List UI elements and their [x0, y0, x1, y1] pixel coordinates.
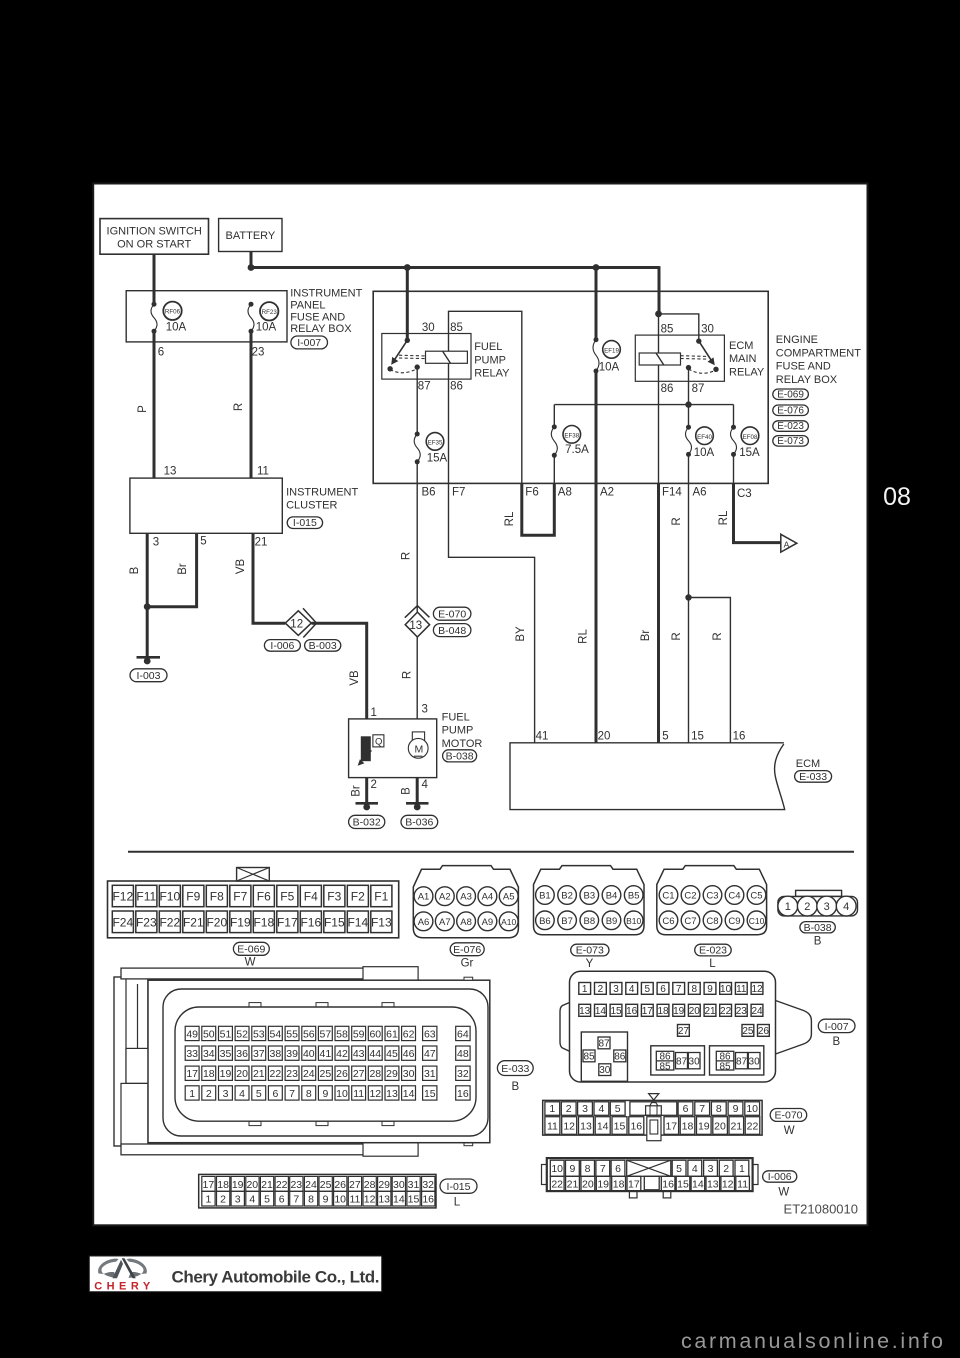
- engine box text labels: [418, 322, 760, 465]
- svg-text:8: 8: [692, 984, 698, 995]
- sender Q box: [373, 735, 384, 747]
- svg-text:W: W: [778, 1187, 789, 1199]
- svg-text:BATTERY: BATTERY: [226, 230, 276, 242]
- svg-text:F7: F7: [233, 890, 247, 904]
- node fuel pump relay feed junction: [404, 264, 411, 271]
- svg-text:16: 16: [662, 1179, 674, 1191]
- connector E-033 top wide tab: [363, 967, 418, 981]
- svg-text:12: 12: [722, 1179, 734, 1191]
- svg-text:16: 16: [630, 1121, 642, 1133]
- fuse EF08 15A: [731, 425, 736, 430]
- oval tags E-069 E-076 E-023 E-073: [773, 389, 809, 446]
- svg-text:ON OR START: ON OR START: [117, 239, 191, 251]
- fuse RF06 10A: [152, 302, 157, 307]
- connector E-033 cavity tabs: [249, 1003, 261, 1007]
- svg-text:B-032: B-032: [353, 817, 381, 829]
- svg-text:27: 27: [353, 1068, 365, 1080]
- connector I-007 pin cells row 2: [579, 1004, 591, 1016]
- svg-text:41: 41: [320, 1048, 332, 1060]
- svg-text:Gr: Gr: [461, 958, 474, 970]
- svg-text:A2: A2: [600, 487, 614, 499]
- svg-text:12: 12: [563, 1121, 575, 1133]
- svg-text:17: 17: [642, 1006, 654, 1017]
- box ECM E-033: [510, 743, 785, 810]
- svg-text:F9: F9: [186, 890, 200, 904]
- svg-text:12: 12: [369, 1088, 381, 1100]
- oval tag E-076: [450, 943, 484, 956]
- svg-text:10: 10: [551, 1163, 563, 1175]
- svg-text:87: 87: [418, 381, 431, 393]
- svg-text:I-015: I-015: [293, 517, 317, 529]
- svg-text:54: 54: [270, 1028, 282, 1040]
- connector E-076 body: [413, 866, 518, 938]
- ground I-003: [137, 656, 161, 659]
- relay K2 travel arc dashed: [689, 369, 717, 373]
- svg-text:F19: F19: [230, 915, 251, 929]
- connector I-007 body: [570, 971, 776, 1082]
- connector I-007 relay socket 1: [581, 1032, 627, 1081]
- svg-text:RL: RL: [718, 510, 730, 525]
- svg-text:85: 85: [719, 1061, 731, 1072]
- svg-text:9: 9: [323, 1194, 329, 1206]
- svg-text:3: 3: [708, 1163, 714, 1175]
- wire EF19 to A2: [595, 371, 598, 483]
- wire motor pin 4 to ground B-036: [416, 778, 419, 804]
- svg-text:64: 64: [457, 1028, 469, 1040]
- svg-text:PANEL: PANEL: [290, 300, 325, 312]
- svg-text:EF38: EF38: [564, 433, 579, 440]
- svg-text:FUEL: FUEL: [474, 341, 502, 353]
- svg-text:2: 2: [206, 1088, 212, 1100]
- svg-text:13: 13: [378, 1194, 390, 1206]
- svg-text:Br: Br: [177, 563, 189, 575]
- svg-text:EF40: EF40: [697, 434, 712, 441]
- wire rail down through EF08 to C3: [733, 405, 735, 428]
- svg-text:9: 9: [707, 984, 713, 995]
- svg-text:45: 45: [386, 1048, 398, 1060]
- svg-text:20: 20: [598, 731, 611, 743]
- svg-text:14: 14: [403, 1088, 415, 1100]
- box engine compartment fuse and relay box: [373, 291, 768, 483]
- svg-text:IGNITION SWITCH: IGNITION SWITCH: [107, 226, 202, 238]
- wire F14 down to ECM 5: [657, 483, 660, 742]
- svg-text:P: P: [137, 405, 149, 413]
- svg-text:Y: Y: [586, 958, 594, 970]
- svg-text:8: 8: [308, 1194, 314, 1206]
- svg-text:C1: C1: [662, 891, 674, 902]
- wire cluster pin 3 to ground I-003: [146, 533, 149, 657]
- svg-text:7: 7: [699, 1103, 705, 1115]
- connector E-073 pin circles: [536, 886, 555, 905]
- svg-text:23: 23: [286, 1068, 298, 1080]
- oval tag I-007: [818, 1019, 855, 1032]
- oval tag I-006: [763, 1171, 797, 1182]
- connector E-023 pin circles: [659, 886, 678, 905]
- svg-text:11: 11: [736, 984, 747, 995]
- svg-text:B6: B6: [422, 487, 436, 499]
- box IGNITION SWITCH ON OR START: [100, 219, 209, 255]
- svg-text:5: 5: [662, 731, 668, 743]
- svg-text:3: 3: [422, 704, 428, 716]
- svg-text:B-048: B-048: [438, 625, 466, 637]
- connector I-006 side tabs: [542, 1165, 547, 1185]
- svg-text:17: 17: [186, 1068, 198, 1080]
- svg-text:2: 2: [598, 984, 604, 995]
- svg-text:20: 20: [582, 1179, 594, 1191]
- svg-text:ECM: ECM: [796, 758, 820, 770]
- svg-text:22: 22: [747, 1121, 759, 1133]
- svg-text:MOTOR: MOTOR: [442, 738, 483, 750]
- svg-text:COMPARTMENT: COMPARTMENT: [776, 347, 861, 359]
- oval tag B-038: [800, 922, 835, 933]
- svg-text:5: 5: [676, 1163, 682, 1175]
- svg-text:14: 14: [597, 1121, 609, 1133]
- svg-text:C6: C6: [662, 916, 674, 927]
- svg-text:B4: B4: [606, 891, 618, 902]
- svg-text:4: 4: [249, 1194, 255, 1206]
- svg-text:50: 50: [203, 1028, 215, 1040]
- svg-text:15: 15: [610, 1006, 622, 1017]
- svg-text:1: 1: [785, 901, 791, 913]
- connector E-070 pin cells row 2: [545, 1117, 560, 1135]
- svg-text:13: 13: [409, 620, 422, 632]
- wire C3 down then right to arrow A: [734, 483, 781, 542]
- svg-text:10: 10: [336, 1088, 348, 1100]
- svg-text:2: 2: [723, 1163, 729, 1175]
- svg-text:5: 5: [264, 1194, 270, 1206]
- svg-text:10: 10: [746, 1103, 758, 1115]
- wire battery down to bus: [250, 252, 253, 270]
- svg-text:23: 23: [290, 1179, 302, 1191]
- svg-text:35: 35: [220, 1048, 232, 1060]
- svg-text:18: 18: [613, 1179, 625, 1191]
- svg-text:BY: BY: [515, 626, 527, 642]
- svg-text:L: L: [709, 958, 716, 970]
- svg-text:8: 8: [306, 1088, 312, 1100]
- connector I-007 cell 25: [742, 1025, 754, 1037]
- oval tag E-069: [233, 942, 269, 955]
- page background scan area: [93, 184, 867, 1226]
- svg-text:C3: C3: [706, 891, 718, 902]
- svg-text:24: 24: [303, 1068, 315, 1080]
- svg-text:4: 4: [692, 1163, 698, 1175]
- svg-text:31: 31: [408, 1179, 420, 1191]
- connector I-007 relay socket 3: [710, 1046, 764, 1075]
- sender wiper arrow: [362, 751, 372, 762]
- oval tag E-023: [695, 944, 732, 956]
- svg-text:6: 6: [615, 1163, 621, 1175]
- wire bus down to fuel pump relay 30: [406, 268, 409, 341]
- svg-text:5: 5: [256, 1088, 262, 1100]
- svg-text:19: 19: [698, 1121, 710, 1133]
- svg-text:2: 2: [220, 1194, 226, 1206]
- svg-text:ECM: ECM: [729, 340, 753, 352]
- svg-text:PUMP: PUMP: [474, 354, 506, 366]
- svg-text:30: 30: [422, 322, 435, 334]
- svg-text:A9: A9: [482, 917, 494, 928]
- svg-text:23: 23: [252, 347, 265, 359]
- wire junction down through EF40 to A6: [688, 405, 690, 428]
- svg-text:1: 1: [205, 1194, 211, 1206]
- wire diamond 12 to fuel pump motor pin 1: [312, 623, 367, 719]
- connector I-006 center slot: [644, 1176, 659, 1190]
- svg-text:B7: B7: [561, 916, 573, 927]
- wire ignition switch to fuse RF06: [153, 254, 156, 304]
- svg-text:C8: C8: [706, 916, 718, 927]
- wire bus horizontal: [251, 266, 659, 269]
- svg-text:46: 46: [403, 1048, 415, 1060]
- svg-text:F11: F11: [136, 890, 156, 904]
- svg-text:C3: C3: [737, 488, 752, 500]
- separator line: [128, 851, 854, 853]
- svg-text:37: 37: [253, 1048, 265, 1060]
- svg-text:F1: F1: [374, 890, 388, 904]
- svg-text:E-073: E-073: [777, 436, 804, 447]
- svg-text:13: 13: [579, 1006, 591, 1017]
- svg-text:EF35: EF35: [428, 440, 443, 447]
- svg-text:19: 19: [232, 1179, 244, 1191]
- svg-text:44: 44: [369, 1048, 381, 1060]
- relay K2 pin30 node: [696, 338, 701, 343]
- svg-text:A8: A8: [558, 487, 572, 499]
- connector E-033 inner shell: [163, 989, 488, 1136]
- svg-text:VB: VB: [235, 559, 247, 575]
- svg-text:7.5A: 7.5A: [565, 444, 589, 456]
- svg-text:20: 20: [714, 1121, 726, 1133]
- svg-text:7: 7: [289, 1088, 295, 1100]
- svg-text:FUSE AND: FUSE AND: [776, 361, 831, 373]
- svg-text:F21: F21: [183, 915, 204, 929]
- svg-text:C7: C7: [684, 916, 696, 927]
- svg-text:59: 59: [353, 1028, 365, 1040]
- svg-text:B8: B8: [583, 916, 595, 927]
- svg-text:48: 48: [457, 1048, 469, 1060]
- svg-text:57: 57: [320, 1028, 332, 1040]
- svg-text:34: 34: [203, 1048, 215, 1060]
- svg-text:RELAY BOX: RELAY BOX: [290, 323, 352, 335]
- svg-text:F4: F4: [304, 890, 318, 904]
- svg-text:7: 7: [600, 1163, 606, 1175]
- oval tag I-003: [130, 669, 167, 682]
- svg-text:22: 22: [551, 1179, 563, 1191]
- svg-text:F13: F13: [371, 915, 392, 929]
- svg-text:F6: F6: [257, 890, 271, 904]
- svg-text:B: B: [832, 1036, 840, 1048]
- svg-text:1: 1: [189, 1088, 195, 1100]
- wire B6 down through connector 13 to motor pin 3: [416, 483, 418, 611]
- connector E-069 pin cells row 1: [112, 885, 133, 906]
- svg-text:30: 30: [599, 1065, 611, 1076]
- svg-text:4: 4: [422, 779, 429, 791]
- svg-text:E-069: E-069: [777, 389, 804, 400]
- svg-text:20: 20: [689, 1006, 701, 1017]
- wire node down to K2 coil 85: [658, 314, 660, 353]
- svg-text:4: 4: [598, 1103, 604, 1115]
- connector pass-through 13 (E-070/B-048): [405, 612, 429, 637]
- svg-text:15A: 15A: [427, 453, 448, 465]
- svg-text:6: 6: [158, 347, 164, 359]
- oval tag E-033: [795, 771, 832, 783]
- svg-text:16: 16: [457, 1088, 469, 1100]
- pin labels under engine box: [422, 487, 752, 501]
- wire node to K2 pin30: [659, 314, 699, 341]
- svg-text:32: 32: [457, 1068, 469, 1080]
- svg-text:13: 13: [164, 466, 177, 478]
- svg-text:B-038: B-038: [446, 751, 474, 763]
- svg-text:85: 85: [583, 1051, 595, 1062]
- connector E-033 inner cavity: [175, 1007, 476, 1121]
- svg-text:14: 14: [595, 1006, 607, 1017]
- svg-text:F20: F20: [206, 915, 227, 929]
- svg-text:52: 52: [236, 1028, 248, 1040]
- svg-text:85: 85: [661, 324, 674, 336]
- svg-text:12: 12: [364, 1194, 376, 1206]
- connector E-069 body: [108, 881, 399, 938]
- svg-text:40: 40: [303, 1048, 315, 1060]
- svg-text:32: 32: [422, 1179, 434, 1191]
- svg-text:3: 3: [613, 984, 619, 995]
- svg-text:30: 30: [393, 1179, 405, 1191]
- oval tag E-073: [571, 944, 609, 956]
- connector I-015 pin cells: [202, 1176, 215, 1191]
- svg-text:21: 21: [730, 1121, 742, 1133]
- connector E-069 pin cells row 2: [112, 911, 133, 933]
- svg-text:3: 3: [223, 1088, 229, 1100]
- connector E-070 pin cells row 1: [545, 1102, 560, 1116]
- connector E-033 bottom bar: [121, 1144, 411, 1155]
- svg-text:R: R: [671, 632, 683, 640]
- svg-text:C4: C4: [728, 891, 740, 902]
- svg-text:F22: F22: [159, 915, 180, 929]
- connector E-023 body: [657, 866, 767, 935]
- svg-text:19: 19: [220, 1068, 232, 1080]
- connector I-006 keying X-box: [627, 1160, 671, 1176]
- svg-text:F14: F14: [347, 915, 368, 929]
- svg-text:28: 28: [369, 1068, 381, 1080]
- svg-text:3: 3: [235, 1194, 241, 1206]
- connector B-038 body: [796, 890, 842, 896]
- node EF19 feed junction: [593, 264, 600, 271]
- svg-text:31: 31: [424, 1068, 436, 1080]
- svg-text:18: 18: [657, 1006, 669, 1017]
- svg-text:10A: 10A: [694, 447, 715, 459]
- svg-text:11: 11: [353, 1088, 364, 1100]
- svg-text:Chery Automobile Co., Ltd.: Chery Automobile Co., Ltd.: [172, 1268, 380, 1287]
- svg-text:6: 6: [272, 1088, 278, 1100]
- oval tag I-007: [130, 336, 341, 682]
- svg-text:10: 10: [334, 1194, 346, 1206]
- wire cluster pin 21 VB to diamond 12: [253, 533, 285, 623]
- node battery junction: [248, 264, 255, 271]
- svg-text:5: 5: [200, 536, 206, 548]
- svg-text:15: 15: [691, 731, 704, 743]
- fuse EF40 10A: [686, 425, 691, 430]
- svg-text:1: 1: [739, 1163, 745, 1175]
- svg-text:63: 63: [424, 1028, 436, 1040]
- connector I-006 body: [547, 1158, 753, 1191]
- svg-text:MAIN: MAIN: [729, 353, 757, 365]
- connector I-015 body: [199, 1174, 436, 1208]
- svg-text:10A: 10A: [166, 322, 187, 334]
- svg-text:ENGINE: ENGINE: [776, 334, 818, 346]
- svg-text:12: 12: [751, 984, 763, 995]
- svg-text:15: 15: [677, 1179, 689, 1191]
- connector I-006 bottom tabs: [629, 1191, 637, 1198]
- oval tag B-003: [305, 640, 341, 652]
- svg-text:11: 11: [737, 1179, 748, 1191]
- svg-text:12: 12: [290, 618, 303, 630]
- svg-text:4: 4: [843, 901, 849, 913]
- svg-text:20: 20: [246, 1179, 258, 1191]
- svg-text:11: 11: [257, 466, 269, 478]
- svg-text:F17: F17: [277, 915, 298, 929]
- connector pass-through 12 (I-006/B-003): [285, 611, 311, 636]
- wire bus down through EF19 to A2: [595, 268, 598, 340]
- connector I-007 left wing: [560, 1003, 570, 1052]
- wire A6 down to split node: [688, 483, 690, 597]
- svg-text:21: 21: [704, 1006, 716, 1017]
- svg-text:W: W: [784, 1125, 795, 1137]
- svg-text:39: 39: [286, 1048, 298, 1060]
- svg-text:B: B: [129, 566, 141, 574]
- svg-text:3: 3: [153, 537, 159, 549]
- svg-text:25: 25: [320, 1179, 332, 1191]
- svg-text:11: 11: [349, 1194, 360, 1206]
- svg-text:15: 15: [424, 1088, 436, 1100]
- svg-text:41: 41: [536, 731, 549, 743]
- svg-text:21: 21: [261, 1179, 273, 1191]
- svg-text:28: 28: [364, 1179, 376, 1191]
- svg-text:18: 18: [217, 1179, 229, 1191]
- connector B-038 pin circles: [778, 896, 798, 916]
- svg-text:F15: F15: [324, 915, 345, 929]
- connector I-007 cell 27: [678, 1025, 690, 1037]
- svg-text:3: 3: [582, 1103, 588, 1115]
- svg-text:85: 85: [450, 322, 463, 334]
- svg-text:F18: F18: [253, 915, 274, 929]
- svg-text:E-023: E-023: [777, 421, 804, 432]
- svg-text:RELAY: RELAY: [729, 366, 765, 378]
- svg-text:E-070: E-070: [774, 1110, 802, 1122]
- svg-text:B5: B5: [628, 891, 640, 902]
- svg-text:ET21080010: ET21080010: [784, 1202, 858, 1217]
- connector E-076 pin circles: [414, 887, 433, 906]
- svg-text:A6: A6: [693, 487, 707, 499]
- svg-text:F6: F6: [525, 487, 538, 499]
- svg-text:10A: 10A: [256, 322, 277, 334]
- svg-text:33: 33: [186, 1048, 198, 1060]
- off-page arrow A: [781, 534, 797, 552]
- svg-text:R: R: [233, 403, 245, 411]
- svg-text:14: 14: [393, 1194, 405, 1206]
- svg-text:6: 6: [683, 1103, 689, 1115]
- svg-text:CLUSTER: CLUSTER: [286, 499, 337, 511]
- svg-text:24: 24: [305, 1179, 317, 1191]
- svg-text:43: 43: [353, 1048, 365, 1060]
- svg-text:B-036: B-036: [405, 817, 433, 829]
- svg-text:A5: A5: [503, 892, 515, 903]
- svg-text:E-073: E-073: [576, 945, 604, 957]
- svg-text:M: M: [415, 744, 424, 756]
- svg-text:87: 87: [692, 383, 705, 395]
- connector E-070 body: [543, 1100, 762, 1135]
- svg-text:RELAY: RELAY: [474, 367, 510, 379]
- svg-text:11: 11: [547, 1121, 558, 1133]
- relay K1 travel arc dashed: [390, 369, 417, 373]
- connector I-007 pin cells row 1: [579, 983, 591, 995]
- svg-text:carmanualsonline.info: carmanualsonline.info: [681, 1329, 943, 1353]
- svg-text:I-003: I-003: [137, 670, 161, 682]
